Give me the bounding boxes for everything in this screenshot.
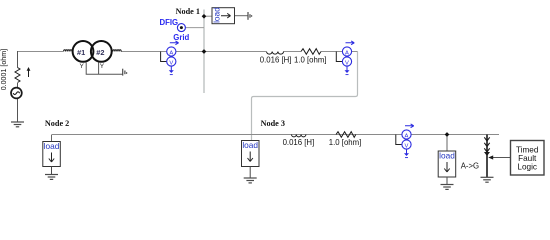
svg-text:V: V <box>345 60 349 66</box>
svg-text:Node 3: Node 3 <box>261 119 285 128</box>
svg-text:load: load <box>242 140 258 150</box>
svg-text:A->G: A->G <box>461 161 479 170</box>
svg-text:A: A <box>345 50 349 56</box>
svg-text:Logic: Logic <box>517 162 537 171</box>
svg-text:0.016 [H]: 0.016 [H] <box>283 138 315 147</box>
svg-text:#1: #1 <box>77 48 85 57</box>
svg-text:Y: Y <box>100 63 105 70</box>
svg-text:V: V <box>169 60 173 66</box>
svg-text:Node 2: Node 2 <box>45 119 69 128</box>
svg-text:A: A <box>405 133 409 139</box>
svg-text:1.0 [ohm]: 1.0 [ohm] <box>329 138 362 147</box>
svg-text:load: load <box>211 7 221 23</box>
svg-text:DFIG: DFIG <box>160 18 179 27</box>
svg-text:#2: #2 <box>96 48 104 57</box>
svg-text:1.0 [ohm]: 1.0 [ohm] <box>294 55 327 64</box>
svg-text:0.0001 [ohm]: 0.0001 [ohm] <box>0 49 8 90</box>
svg-text:Node 1: Node 1 <box>176 7 200 16</box>
svg-text:A: A <box>169 50 173 56</box>
svg-text:load: load <box>44 141 60 151</box>
svg-text:Y: Y <box>80 63 85 70</box>
svg-text:load: load <box>439 150 455 160</box>
svg-text:0.016 [H]: 0.016 [H] <box>260 55 292 64</box>
svg-text:V: V <box>405 143 409 149</box>
svg-text:Grid: Grid <box>173 33 189 42</box>
